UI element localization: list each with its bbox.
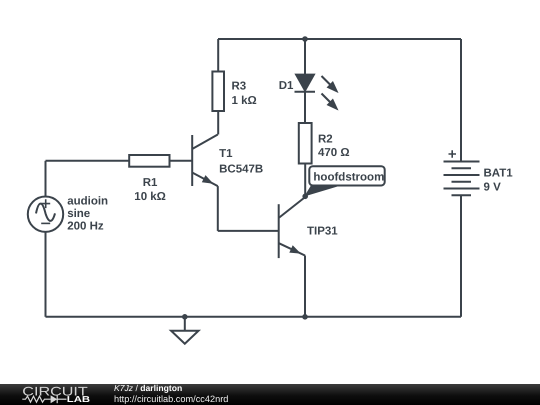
battery plus sign bbox=[449, 150, 457, 158]
wire R3 to T1 collector bbox=[217, 111, 219, 135]
LED D1 light arrow 2 bbox=[322, 94, 338, 110]
source minus sign bbox=[41, 222, 50, 224]
transistor Q2 TIP31 bbox=[279, 198, 305, 259]
svg-text:T1: T1 bbox=[219, 148, 233, 160]
svg-text:D1: D1 bbox=[279, 80, 294, 92]
voltage source V1 audioin bbox=[28, 197, 63, 232]
node collector junction bbox=[302, 194, 308, 200]
source plus sign bbox=[41, 199, 50, 208]
CircuitLab logo bbox=[22, 385, 97, 405]
label R3 value bbox=[232, 81, 257, 107]
svg-text:1 kΩ: 1 kΩ bbox=[232, 95, 257, 107]
footer bar bbox=[0, 384, 540, 405]
wire R1 to T1 base bbox=[170, 160, 193, 162]
svg-text:R3: R3 bbox=[232, 81, 247, 93]
wire D1 anode lead bbox=[304, 39, 306, 75]
label R1 value bbox=[134, 177, 166, 203]
node emitter bottom junction bbox=[302, 314, 308, 320]
node top rail junction bbox=[302, 36, 308, 42]
label BAT1 9V bbox=[484, 168, 514, 194]
wire T1 emitter down bbox=[217, 186, 219, 231]
svg-text:LAB: LAB bbox=[67, 394, 90, 404]
resistor R2 bbox=[299, 123, 312, 164]
svg-text:TIP31: TIP31 bbox=[307, 226, 338, 238]
wire battery top lead bbox=[460, 39, 462, 162]
wire T1 emitter to TIP31 base bbox=[218, 230, 279, 232]
transistor T1 BC547B bbox=[192, 135, 218, 187]
wire source bottom lead bbox=[45, 232, 47, 317]
wire R2 to collector node bbox=[304, 164, 306, 198]
svg-text:9 V: 9 V bbox=[484, 181, 502, 193]
wire D1 cathode to R2 bbox=[304, 92, 306, 123]
wire battery bottom lead bbox=[460, 195, 462, 317]
svg-text:audioin: audioin bbox=[67, 196, 108, 208]
wire TIP31 emitter down bbox=[304, 256, 306, 317]
svg-text:10 kΩ: 10 kΩ bbox=[134, 191, 166, 203]
svg-text:sine: sine bbox=[67, 208, 90, 220]
svg-text:BAT1: BAT1 bbox=[484, 168, 514, 180]
footer credit line bbox=[114, 384, 182, 393]
svg-text:200 Hz: 200 Hz bbox=[67, 221, 104, 233]
wire bottom rail bbox=[46, 316, 462, 318]
annotation hoofdstroom callout bbox=[305, 166, 384, 196]
label D1 bbox=[279, 80, 294, 92]
label audioin sine 200 Hz bbox=[67, 196, 108, 233]
label TIP31 bbox=[307, 226, 338, 238]
label T1 bbox=[219, 148, 263, 176]
battery BAT1 bbox=[444, 162, 480, 196]
wire top rail bbox=[218, 38, 461, 40]
label R2 value bbox=[318, 133, 350, 159]
LED D1 bbox=[295, 75, 316, 92]
resistor R3 bbox=[212, 72, 224, 112]
node ground junction bbox=[182, 314, 188, 320]
svg-text:R1: R1 bbox=[143, 177, 158, 189]
ground bbox=[171, 317, 198, 344]
LED D1 light arrow 1 bbox=[322, 76, 338, 92]
svg-text:470 Ω: 470 Ω bbox=[318, 147, 350, 159]
svg-text:R2: R2 bbox=[318, 133, 333, 145]
wire source top lead bbox=[45, 161, 47, 197]
wire source to R1 bbox=[46, 160, 130, 162]
wire R3 top lead bbox=[217, 39, 219, 72]
svg-text:BC547B: BC547B bbox=[219, 164, 263, 176]
svg-text:hoofdstroom: hoofdstroom bbox=[313, 172, 384, 184]
resistor R1 bbox=[129, 155, 169, 167]
footer url bbox=[114, 395, 228, 404]
